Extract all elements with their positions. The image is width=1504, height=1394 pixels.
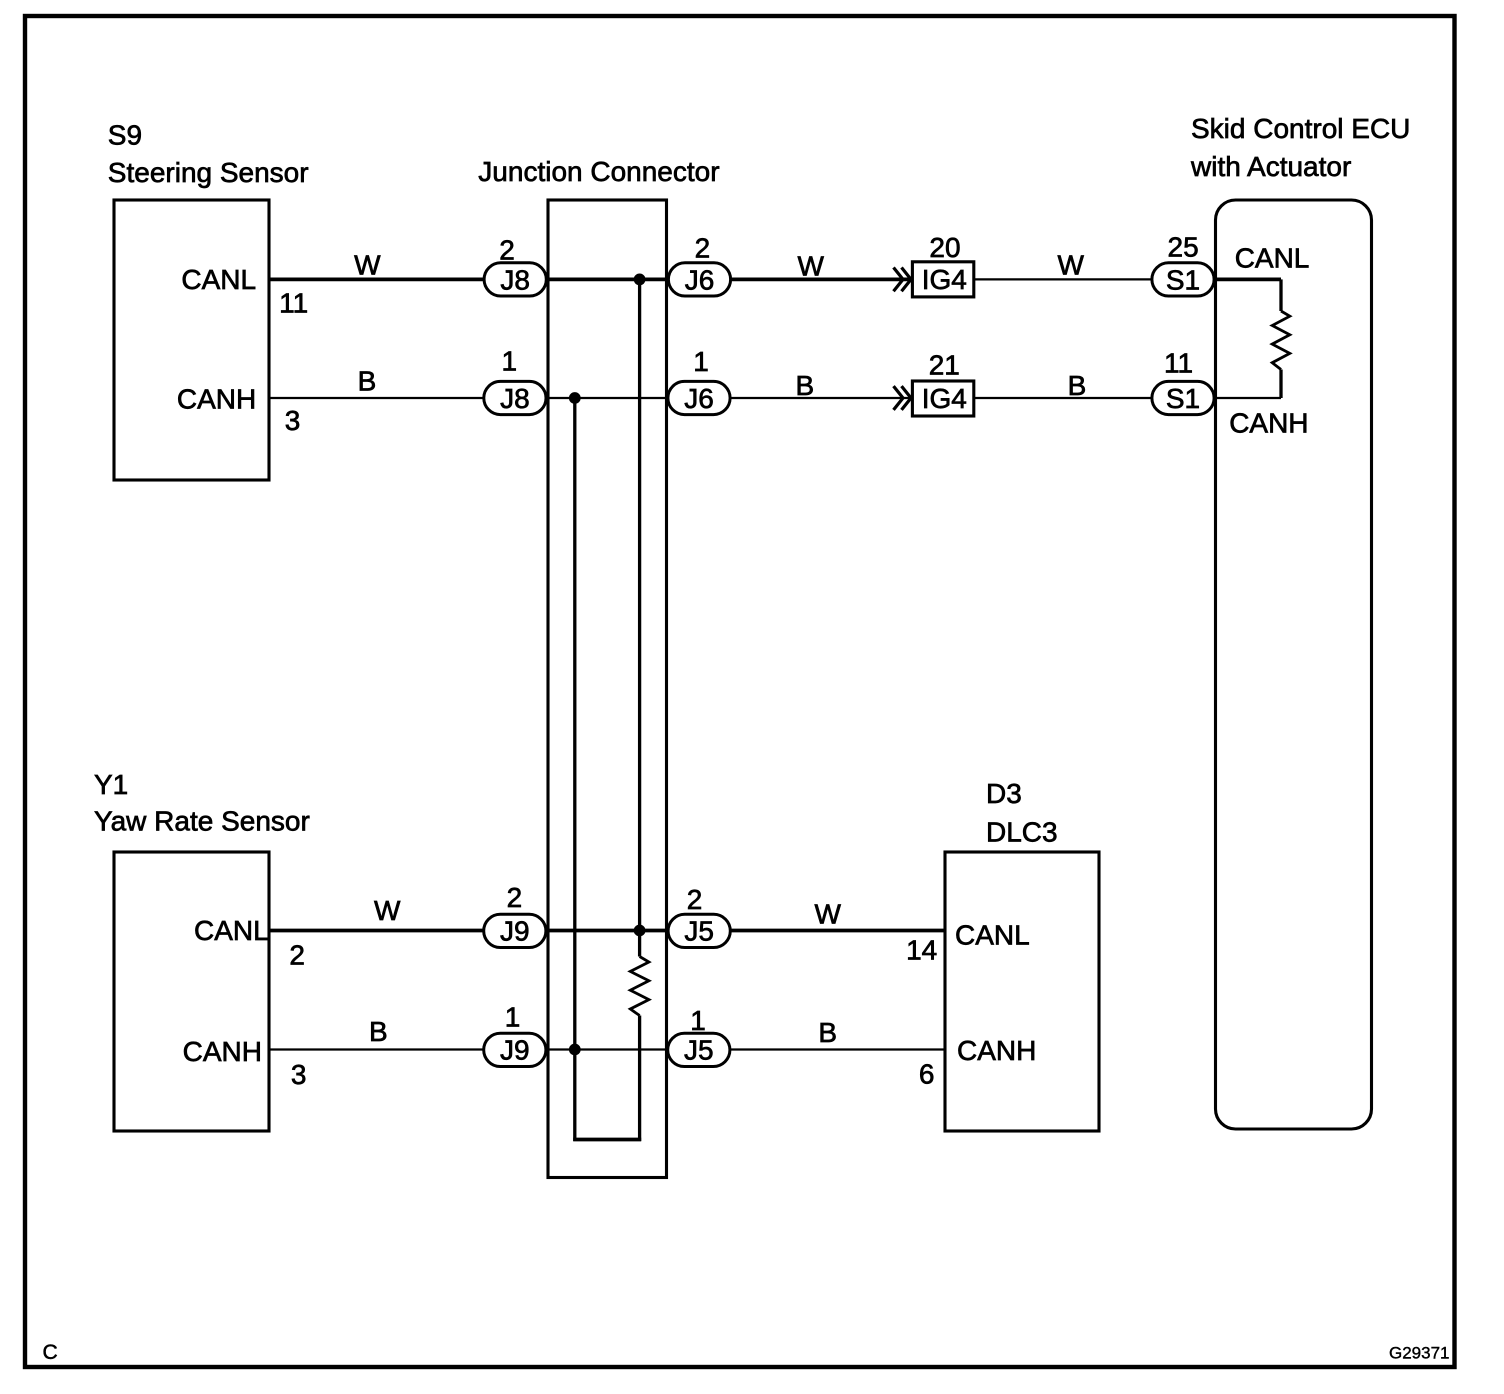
wire resistor bottom stub inside junction connector: [638, 1016, 641, 1142]
svg-text:CANL: CANL: [955, 920, 1030, 951]
wire CANL row A: S9 to IG4 (W): [269, 277, 912, 281]
svg-text:3: 3: [291, 1059, 307, 1090]
svg-text:6: 6: [919, 1059, 935, 1090]
resistor zigzag inside ECU: [1272, 311, 1290, 370]
yaw rate sensor Y1 box: [114, 852, 269, 1131]
connector oval J8 pin 1: [484, 381, 546, 414]
svg-text:B: B: [358, 366, 377, 397]
svg-text:J6: J6: [685, 264, 715, 295]
svg-text:IG4: IG4: [922, 264, 967, 295]
wire CANH row B: IG4 to S1 (B): [975, 397, 1152, 399]
resistor inside ECU: bottom stub: [1279, 370, 1282, 399]
junction dot row B CANH: [569, 392, 581, 404]
wire resistor top stub inside junction connector: [638, 931, 641, 957]
svg-text:25: 25: [1168, 231, 1199, 262]
steering sensor S9 box: [114, 200, 269, 480]
svg-text:2: 2: [499, 235, 515, 266]
connector oval J6 pin 1: [668, 381, 730, 414]
svg-text:14: 14: [906, 935, 937, 966]
connector IG4 pin 20 box: [912, 262, 973, 297]
chevron arrows into IG4 pin 20: [894, 268, 904, 292]
svg-text:W: W: [374, 895, 401, 926]
connector oval S1 pin 25: [1152, 263, 1214, 296]
svg-text:B: B: [1068, 370, 1087, 401]
svg-text:J8: J8: [500, 383, 530, 414]
wire CANL row A: IG4 to S1 (W): [975, 278, 1152, 280]
svg-text:1: 1: [693, 346, 709, 377]
junction dot row D CANH: [569, 1044, 581, 1056]
svg-text:Yaw Rate Sensor: Yaw Rate Sensor: [94, 806, 310, 837]
svg-text:CANH: CANH: [183, 1036, 262, 1067]
svg-text:2: 2: [687, 884, 703, 915]
connector oval S1 pin 11: [1152, 381, 1214, 414]
svg-text:S9: S9: [108, 120, 142, 151]
svg-text:CANH: CANH: [1229, 408, 1308, 439]
svg-text:CANL: CANL: [181, 264, 256, 295]
wire CANH row D: Y1 to DLC3 (B): [269, 1048, 946, 1050]
svg-text:B: B: [818, 1017, 837, 1048]
svg-text:IG4: IG4: [922, 383, 967, 414]
svg-text:Y1: Y1: [94, 769, 128, 800]
svg-text:W: W: [814, 899, 841, 930]
svg-text:J8: J8: [500, 264, 530, 295]
wire U-bend bottom inside junction connector: [573, 1138, 641, 1142]
svg-text:J6: J6: [684, 383, 714, 414]
svg-text:W: W: [797, 251, 824, 282]
wire CANH row B: S9 to IG4 (B): [269, 397, 912, 399]
svg-text:J5: J5: [684, 1035, 714, 1066]
resistor inside ECU: top stub: [1279, 279, 1282, 311]
DLC3 connector D3 box: [945, 852, 1099, 1131]
connector oval J9 pin 2: [484, 914, 546, 947]
svg-text:with Actuator: with Actuator: [1190, 151, 1351, 182]
svg-text:J9: J9: [500, 916, 530, 947]
svg-text:S1: S1: [1166, 383, 1200, 414]
svg-text:B: B: [796, 370, 815, 401]
svg-text:Steering Sensor: Steering Sensor: [108, 157, 309, 188]
svg-text:CANH: CANH: [957, 1035, 1036, 1066]
junction connector box: [548, 200, 667, 1178]
svg-text:C: C: [43, 1341, 58, 1364]
connector oval J8 pin 2: [484, 263, 546, 296]
svg-text:CANL: CANL: [1235, 243, 1310, 274]
svg-text:B: B: [369, 1016, 388, 1047]
svg-text:G29371: G29371: [1389, 1344, 1450, 1363]
svg-text:2: 2: [695, 233, 711, 264]
svg-text:1: 1: [690, 1005, 706, 1036]
svg-text:W: W: [354, 250, 381, 281]
svg-text:J5: J5: [684, 916, 714, 947]
wire vertical CANL net inside junction connector: [638, 279, 641, 930]
svg-text:Junction Connector: Junction Connector: [478, 156, 719, 187]
wire CANL inside ECU: [1215, 277, 1281, 281]
svg-text:1: 1: [502, 346, 518, 377]
skid control ECU with actuator box U1: [1216, 200, 1372, 1129]
svg-text:Skid Control ECU: Skid Control ECU: [1191, 113, 1410, 144]
connector oval J5 pin 2: [668, 914, 730, 947]
svg-text:11: 11: [279, 288, 308, 319]
svg-text:2: 2: [289, 940, 305, 971]
svg-text:D3: D3: [986, 778, 1022, 809]
svg-text:J9: J9: [500, 1035, 530, 1066]
connector oval J6 pin 2: [668, 263, 730, 296]
svg-text:20: 20: [929, 232, 960, 263]
resistor zigzag inside junction connector: [630, 957, 649, 1016]
svg-text:1: 1: [505, 1002, 521, 1033]
svg-text:2: 2: [507, 882, 523, 913]
svg-text:3: 3: [285, 405, 301, 436]
svg-text:11: 11: [1164, 347, 1193, 378]
junction dot row A CANL: [634, 274, 646, 286]
connector oval J9 pin 1: [484, 1033, 546, 1066]
svg-text:DLC3: DLC3: [986, 817, 1058, 848]
wire vertical CANH net inside junction connector: [573, 398, 576, 1141]
svg-text:W: W: [1057, 250, 1084, 281]
chevron arrows into IG4 pin 21: [894, 386, 904, 410]
wire CANH inside ECU: [1215, 397, 1281, 399]
svg-text:21: 21: [929, 350, 960, 381]
connector IG4 pin 21 box: [912, 381, 973, 416]
connector oval J5 pin 1: [668, 1033, 730, 1066]
svg-text:CANH: CANH: [177, 383, 256, 414]
junction dot row C CANL: [634, 925, 646, 937]
svg-text:CANL: CANL: [194, 915, 269, 946]
wire CANL row C: Y1 to DLC3 (W): [269, 929, 946, 933]
svg-text:S1: S1: [1166, 264, 1200, 295]
